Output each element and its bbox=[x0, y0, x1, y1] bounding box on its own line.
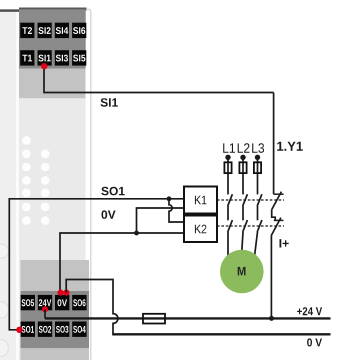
wire feedback to +24V rail bbox=[270, 236, 272, 319]
terminal SO4 bbox=[72, 322, 86, 337]
wire phase L2 upper bbox=[242, 157, 244, 194]
LED column left bbox=[22, 136, 31, 225]
dashed linkage K1 contacts bbox=[217, 199, 284, 201]
label 0 V bbox=[307, 338, 322, 346]
label 1.Y1 bbox=[277, 142, 303, 151]
node L3 bbox=[255, 155, 260, 160]
terminal SO5 bbox=[21, 295, 35, 310]
terminal SO1 bbox=[21, 322, 35, 337]
left neighbour module body bbox=[0, 9, 21, 360]
node +24V feedback junction bbox=[269, 316, 274, 321]
label L3 bbox=[252, 143, 264, 153]
label SO1 bbox=[101, 187, 124, 196]
main safety-relay module body bbox=[19, 8, 91, 360]
label +24 V bbox=[297, 307, 322, 315]
contact feedback lower (I+) bbox=[271, 218, 283, 236]
label SI1 bbox=[101, 98, 118, 107]
contact K1 pole 2 bbox=[243, 194, 248, 220]
wire 0V bottom rail bbox=[112, 333, 330, 335]
wire phase L3 upper bbox=[257, 157, 259, 194]
wire SO1 loop (terminal SO1 to K1) bbox=[9, 199, 184, 330]
dashed linkage K2 contacts bbox=[217, 225, 284, 227]
label L2 bbox=[238, 143, 250, 152]
label I+ bbox=[280, 239, 289, 247]
node 0V terminal b (red) bbox=[63, 290, 69, 296]
wire 0V to K1 bbox=[137, 208, 185, 233]
wire 0V terminal to bottom rail (hop over +24V rail) bbox=[66, 280, 118, 335]
node 0V junction bbox=[134, 231, 139, 236]
wire +24V rail bbox=[45, 317, 331, 319]
contact K2 pole 1 bbox=[228, 220, 233, 258]
terminal SO2 bbox=[38, 322, 52, 337]
wire SO1 to K2 (hop over 0V wire) bbox=[169, 199, 184, 222]
contact K1 pole 3 bbox=[257, 194, 262, 220]
terminal T2 bbox=[20, 23, 34, 38]
terminal T1 bbox=[20, 50, 34, 65]
terminal SO3 bbox=[55, 322, 69, 337]
contactor coil K1 bbox=[184, 187, 217, 214]
wire SI1 from terminal to feedback line bbox=[44, 67, 274, 93]
LED column right bbox=[41, 150, 50, 225]
node SO1 terminal (red) bbox=[16, 327, 22, 333]
node 0V terminal a (red) bbox=[58, 290, 64, 296]
terminal 0V bbox=[55, 295, 69, 310]
terminal SI1 bbox=[38, 50, 52, 65]
contactor coil K2 bbox=[184, 216, 217, 243]
wire 24V terminal to +24V rail bbox=[44, 309, 46, 318]
node SO1/K2 junction bbox=[167, 196, 172, 201]
terminal SI5 bbox=[72, 50, 86, 65]
fuse F1 (phase L1) bbox=[224, 162, 231, 173]
terminal SI3 bbox=[55, 50, 69, 65]
terminal SI4 bbox=[55, 23, 69, 38]
node 24V terminal (red) bbox=[42, 306, 48, 312]
contact feedback upper (1.Y1) bbox=[272, 192, 284, 221]
fuse F2 (phase L2) bbox=[239, 162, 246, 173]
contact K2 pole 2 bbox=[241, 220, 247, 258]
label 0V bbox=[102, 210, 116, 219]
terminal SI2 bbox=[38, 23, 52, 38]
fuse F4 on +24V rail bbox=[143, 314, 165, 324]
fuse F3 (phase L3) bbox=[254, 162, 261, 173]
motor M bbox=[220, 250, 264, 294]
terminal SI6 bbox=[72, 23, 86, 38]
wire 0V (terminal 0V to K2) bbox=[60, 233, 184, 292]
node L1 bbox=[225, 155, 230, 160]
terminal 24V bbox=[38, 295, 52, 310]
wire feedback line 1.Y1 vertical bbox=[273, 93, 275, 195]
wire phase L1 upper bbox=[227, 157, 229, 194]
terminal SO6 bbox=[72, 295, 86, 310]
contact K2 pole 3 bbox=[254, 220, 262, 258]
label L1 bbox=[223, 143, 235, 152]
node L2 bbox=[240, 155, 245, 160]
node SI1 terminal (red) bbox=[41, 63, 47, 69]
gap between modules bbox=[16, 12, 20, 360]
contact K1 pole 1 bbox=[228, 194, 233, 220]
